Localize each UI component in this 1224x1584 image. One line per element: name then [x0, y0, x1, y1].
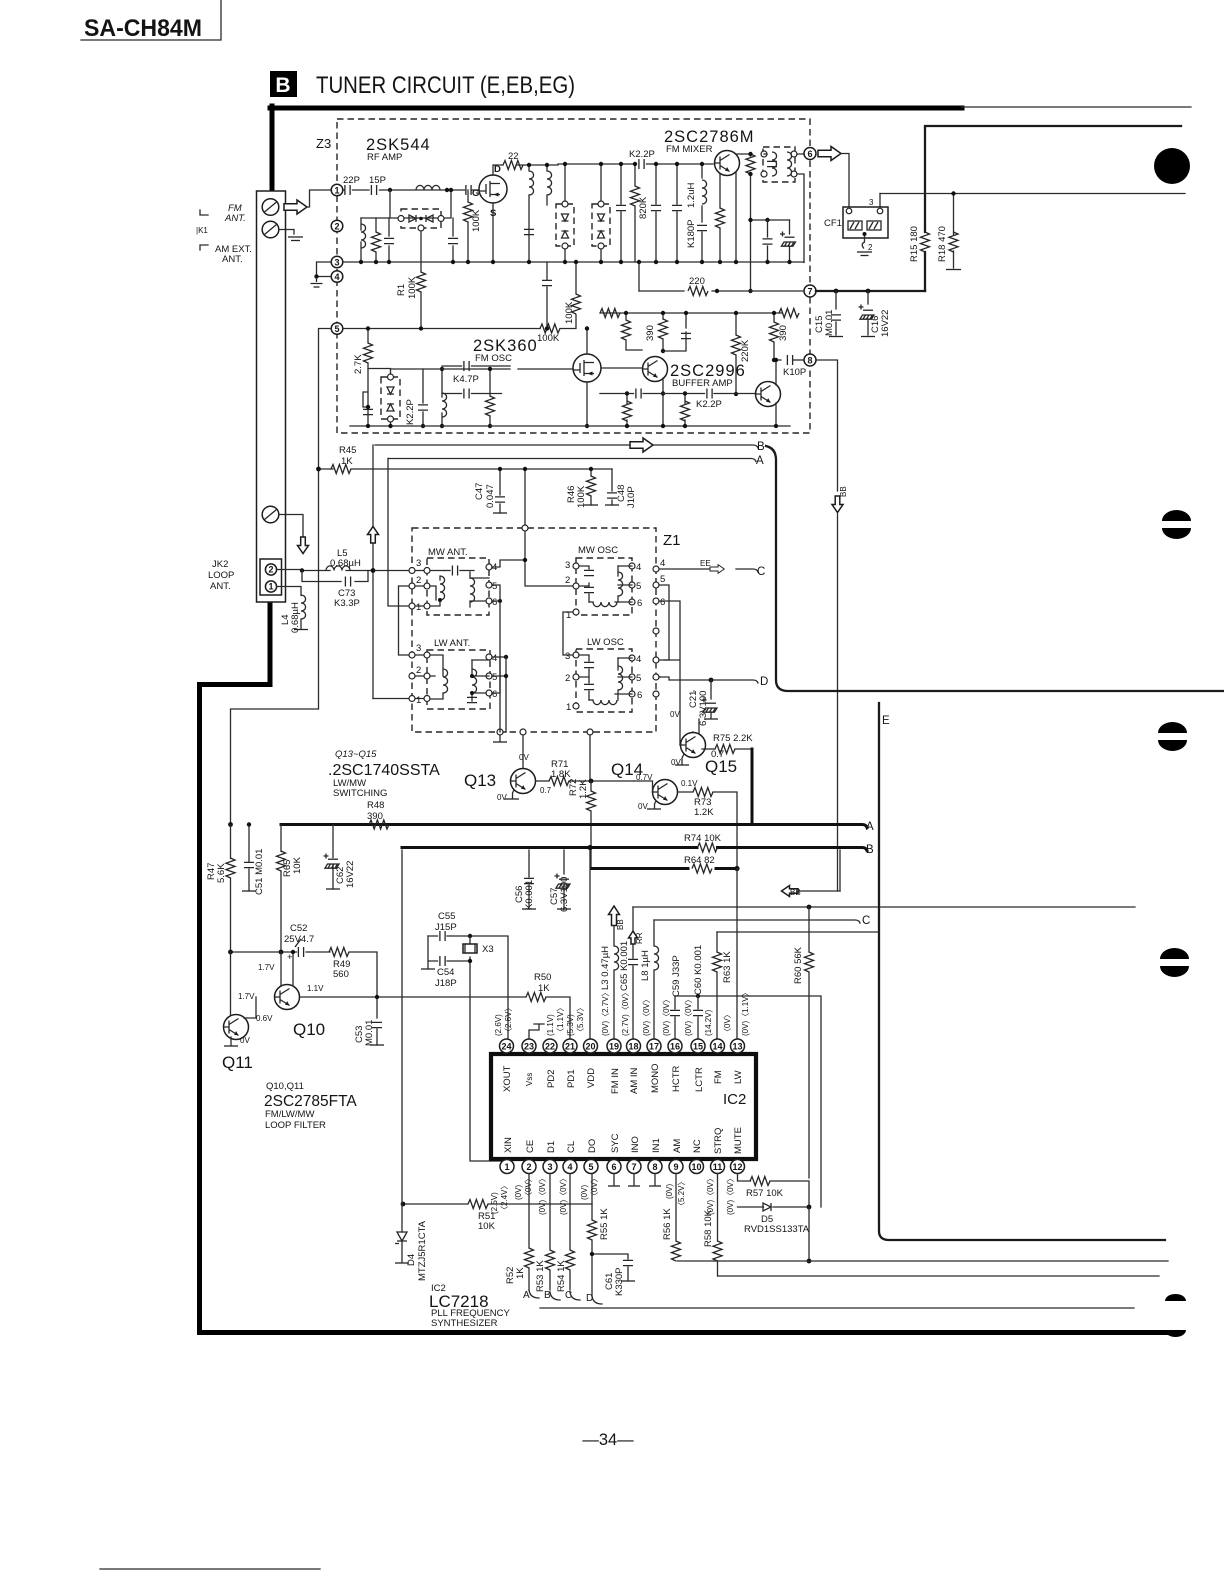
svg-text:220K: 220K [740, 339, 751, 362]
wire AM ext terminal [279, 230, 294, 235]
svg-text:10K: 10K [478, 1221, 496, 1232]
stray bottom-left edge line [100, 1568, 320, 1570]
svg-text:10K: 10K [292, 856, 303, 874]
svg-text:R54 1K: R54 1K [556, 1260, 567, 1292]
svg-text:B: B [866, 844, 874, 856]
svg-text:(14.2V): (14.2V) [704, 1009, 713, 1036]
svg-text:8: 8 [807, 355, 812, 365]
svg-text:B: B [757, 441, 765, 453]
collector load resistor [750, 154, 752, 156]
buffer collector to K10P [776, 360, 781, 385]
svg-text:CF1: CF1 [824, 218, 842, 229]
svg-text:ANT.: ANT. [222, 254, 243, 265]
svg-text:5.6K: 5.6K [216, 863, 227, 883]
svg-text:DO: DO [587, 1139, 598, 1153]
wire pin7 bias row [600, 312, 782, 314]
svg-text:0.7: 0.7 [711, 749, 724, 760]
JK1 brace [200, 210, 208, 250]
capacitor C15 M0.01 [835, 291, 837, 335]
svg-text:15: 15 [693, 1041, 703, 1051]
pin 8 [804, 354, 816, 366]
svg-text:1: 1 [416, 695, 421, 706]
registration black circle [1154, 148, 1190, 184]
capacitor C65 K0.001 [628, 959, 638, 964]
pin 6 [804, 148, 816, 160]
crystal left vert [427, 936, 429, 968]
crystal top wire [428, 936, 508, 1039]
Z1 right edge circles MW [653, 566, 659, 572]
svg-text:BB: BB [839, 486, 848, 497]
MW OSC p3 feed from bus [563, 612, 573, 655]
svg-text:R57 10K: R57 10K [746, 1188, 784, 1199]
svg-text:(0V): (0V) [665, 1184, 674, 1199]
junction [527, 163, 531, 167]
crystal bottom cap C54 [428, 960, 470, 962]
svg-text:15P: 15P [369, 175, 386, 186]
svg-text:〈2.6V〉: 〈2.6V〉 [504, 1004, 513, 1036]
svg-text:6: 6 [492, 689, 497, 700]
svg-text:390: 390 [778, 325, 789, 341]
coil shunt [360, 218, 362, 262]
arrow EE small [710, 565, 724, 574]
pin7 term [633, 1174, 635, 1185]
Q10 collector up [292, 952, 294, 986]
svg-text:Q13: Q13 [464, 771, 496, 790]
capacitor K10P [787, 355, 792, 365]
svg-text:—34—: —34— [582, 1431, 634, 1449]
coil L8 1uH [654, 946, 659, 970]
FM det transformer dashed box [763, 147, 795, 182]
det secondary coil [787, 152, 792, 176]
svg-text:8: 8 [652, 1162, 657, 1172]
svg-text:CE: CE [525, 1140, 536, 1153]
Q13 emitter ground [513, 790, 515, 798]
svg-text:R15 180: R15 180 [909, 226, 920, 262]
transistor 2SC2996 [643, 357, 668, 382]
capacitor C60 K0.001 [693, 1010, 703, 1015]
svg-text:XOUT: XOUT [502, 1065, 513, 1092]
wire R45 supply line [319, 468, 613, 470]
svg-text:R74 10K: R74 10K [684, 833, 722, 844]
capacitor C61 K330P [592, 1254, 628, 1259]
svg-text:0.68µH: 0.68µH [290, 602, 301, 633]
wire R57/D5 column to bottom [808, 1207, 810, 1261]
svg-text:0.1V: 0.1V [681, 779, 698, 788]
svg-text:R1: R1 [396, 284, 407, 296]
svg-text:6: 6 [637, 690, 642, 701]
JK2 pin 2 [265, 564, 276, 575]
svg-text:0.7: 0.7 [540, 786, 552, 795]
svg-text:2: 2 [334, 221, 339, 231]
svg-text:R53 1K: R53 1K [535, 1260, 546, 1292]
mixer emitter down [735, 172, 737, 262]
svg-text:ANT.: ANT. [210, 581, 231, 592]
IF transformer coil b [547, 171, 552, 195]
svg-text:SA-CH84M: SA-CH84M [84, 15, 202, 42]
svg-text:1K: 1K [341, 456, 353, 467]
screw terminal loop [262, 506, 279, 523]
svg-text:18: 18 [628, 1041, 638, 1051]
svg-text:2: 2 [416, 665, 421, 676]
up arrow AM line [368, 527, 379, 544]
svg-text:XIN: XIN [503, 1137, 514, 1153]
diode D4 MTZJ5R1CTA [395, 1232, 407, 1244]
svg-text:2SC2785FTA: 2SC2785FTA [264, 1093, 357, 1110]
svg-text:22: 22 [508, 151, 519, 162]
junction [445, 188, 449, 192]
wire R51 row [403, 1174, 592, 1205]
svg-text:FM/LW/MW: FM/LW/MW [265, 1109, 314, 1120]
capacitor into gate [466, 185, 471, 195]
svg-text:TUNER CIRCUIT (E,EB,EG): TUNER CIRCUIT (E,EB,EG) [316, 72, 575, 99]
junction row A left [228, 822, 233, 827]
Z3 dashed enclosure [337, 119, 810, 433]
mixer collector wire [736, 153, 751, 155]
svg-text:A: A [866, 821, 874, 833]
svg-text:Z3: Z3 [316, 136, 331, 151]
top pin names [502, 1063, 744, 1094]
svg-text:K3.3P: K3.3P [334, 598, 360, 609]
arrow FM out [818, 147, 841, 161]
svg-text:(0V)〈0V〉: (0V)〈0V〉 [642, 995, 651, 1036]
svg-text:R56 1K: R56 1K [662, 1208, 673, 1240]
capacitor C52 25V4.7 [298, 947, 303, 957]
wire osc out C [659, 569, 758, 572]
wire bus pin3 long [343, 261, 804, 263]
wire loop screw to down arrow [279, 515, 303, 539]
svg-text:21: 21 [565, 1041, 575, 1051]
svg-text:4: 4 [334, 272, 339, 282]
svg-text:0V: 0V [519, 753, 529, 762]
Z1 right edge circles LW [653, 628, 659, 634]
wire drain to IF coils [516, 164, 558, 166]
CF1 body [843, 207, 888, 238]
transistor buffer out [756, 382, 781, 407]
svg-text:1K: 1K [515, 1267, 526, 1279]
svg-text:5: 5 [636, 673, 641, 684]
section letter B block [270, 71, 297, 97]
svg-text:3: 3 [416, 643, 421, 654]
svg-text:C65 K0.001: C65 K0.001 [619, 941, 630, 991]
FET drain/source wires [587, 329, 642, 427]
svg-text:STRQ: STRQ [713, 1128, 724, 1154]
svg-text:K4.7P: K4.7P [453, 374, 479, 385]
svg-text:22P: 22P [343, 175, 360, 186]
capacitor C21 6.3V100 [693, 690, 695, 692]
svg-text:3: 3 [547, 1162, 552, 1172]
svg-text:VDD: VDD [586, 1068, 597, 1088]
svg-text:FM MIXER: FM MIXER [666, 144, 713, 155]
coil L5 [326, 566, 350, 571]
svg-text:Q13~Q15: Q13~Q15 [335, 749, 377, 760]
coil L4 [277, 587, 301, 596]
capacitor C53 M0.01 [376, 997, 378, 1045]
svg-text:(0V)〈1.1V〉: (0V)〈1.1V〉 [741, 988, 750, 1036]
svg-text:5: 5 [588, 1162, 593, 1172]
svg-text:LCTR: LCTR [694, 1067, 705, 1092]
varactor dashed box IF b [592, 204, 610, 246]
svg-text:4: 4 [567, 1162, 572, 1172]
arrow B line [630, 438, 653, 452]
svg-text:M0.01: M0.01 [824, 310, 835, 336]
svg-text:JK2: JK2 [212, 559, 228, 570]
svg-text:C59 J33P: C59 J33P [671, 955, 682, 997]
pin5 left drop to AM section [231, 329, 332, 826]
svg-text:390: 390 [645, 325, 656, 341]
wire R60 column [808, 907, 810, 1178]
wire mixer base line [558, 163, 713, 165]
svg-text:560: 560 [333, 969, 349, 980]
svg-text:1.2K: 1.2K [578, 779, 589, 799]
resistor R48 390 in row A [280, 823, 283, 826]
svg-text:390: 390 [367, 811, 383, 822]
svg-text:R58 10K: R58 10K [703, 1209, 714, 1247]
varactor tuning line to R1 [420, 231, 422, 272]
capacitor K180P [697, 225, 707, 230]
svg-text:5: 5 [492, 581, 497, 592]
capacitor C57 6.3V100 [563, 850, 565, 909]
resistor R75 [702, 748, 715, 750]
pin 2 [331, 220, 343, 232]
binder mark pair 2 [1158, 722, 1187, 733]
resistor R51 10K [468, 1200, 488, 1209]
svg-text:〈0V〉: 〈0V〉 [723, 1010, 732, 1036]
capacitor C62 16V22 [332, 825, 334, 858]
svg-text:4: 4 [636, 654, 641, 665]
svg-text:(0V)〈0V〉: (0V)〈0V〉 [684, 995, 693, 1036]
svg-text:0V: 0V [240, 1036, 250, 1045]
svg-text:10: 10 [691, 1162, 701, 1172]
thin top border continuation [962, 106, 1191, 108]
svg-text:0.047: 0.047 [485, 484, 496, 508]
svg-text:7: 7 [807, 286, 812, 296]
svg-text:4: 4 [636, 562, 641, 573]
svg-text:K2.2P: K2.2P [696, 399, 722, 410]
capacitor C48 J10P [611, 469, 613, 505]
resistor 22 drain [493, 165, 503, 175]
wire Q15 collector drop [692, 732, 694, 733]
svg-text:MTZJ5R1CTA: MTZJ5R1CTA [417, 1220, 428, 1281]
svg-text:K330P: K330P [614, 1267, 625, 1296]
svg-text:PD1: PD1 [566, 1070, 577, 1088]
svg-text:RVD1SS133TA: RVD1SS133TA [744, 1224, 810, 1235]
svg-text:NC: NC [692, 1139, 703, 1153]
svg-text:2.7K: 2.7K [353, 354, 364, 374]
svg-text:1K: 1K [538, 983, 550, 994]
svg-text:C60 K0.001: C60 K0.001 [693, 945, 704, 995]
svg-text:100K: 100K [471, 209, 482, 232]
Q10 base from R65 [280, 952, 282, 985]
svg-text:LW: LW [733, 1070, 744, 1084]
pin 1 [331, 184, 343, 196]
pin 4 [331, 271, 343, 283]
svg-text:K2.2P: K2.2P [629, 149, 655, 160]
svg-text:〈1.1V〉: 〈1.1V〉 [556, 1004, 565, 1036]
svg-text:6: 6 [660, 597, 665, 608]
svg-text:(0V)〈0V〉: (0V)〈0V〉 [726, 1174, 735, 1215]
svg-text:R55 1K: R55 1K [599, 1208, 610, 1240]
svg-text:RF AMP: RF AMP [367, 152, 402, 163]
bottom voltage labels [490, 1174, 735, 1215]
resistor 390 a [626, 313, 642, 350]
svg-text:EE: EE [700, 559, 711, 568]
svg-text:D: D [760, 676, 768, 688]
resistor R18 470 [953, 194, 955, 269]
varactor dashed box IF a [556, 204, 574, 246]
MW ANT p4 to MW OSC via top [492, 560, 525, 567]
svg-text:2: 2 [268, 565, 273, 575]
wire Q15 out to bus A [751, 749, 754, 822]
resistor 100K pin5 line [540, 324, 560, 333]
wire B column to D4 [401, 850, 403, 1204]
osc cap left [363, 409, 373, 414]
transistor Q14 [653, 780, 678, 805]
wire FET source down [492, 203, 494, 262]
svg-text:13: 13 [732, 1041, 742, 1051]
svg-text:SWITCHING: SWITCHING [333, 788, 387, 799]
transistor Q15 [681, 733, 706, 758]
wire top thin line from riser [925, 126, 1181, 291]
resistor R49 560 [329, 948, 349, 957]
svg-text:K2.2P: K2.2P [405, 399, 416, 425]
cap bias [663, 332, 686, 351]
svg-text:L3 0.47µH: L3 0.47µH [600, 946, 611, 990]
svg-text:C52: C52 [290, 923, 307, 934]
svg-text:C47: C47 [474, 483, 485, 500]
svg-text:0V: 0V [638, 802, 648, 811]
svg-text:(5.3V): (5.3V) [566, 1014, 575, 1036]
second IF cap [542, 280, 552, 285]
resistor 2.7K [367, 329, 369, 408]
wire C52 R49 line [231, 952, 378, 997]
wire LW ANT p4/p5 join down [492, 656, 506, 658]
capacitor K4.7P b [464, 389, 469, 399]
svg-text:7: 7 [631, 1162, 636, 1172]
wire loop pin2 line [277, 570, 411, 571]
svg-text:HCTR: HCTR [671, 1065, 682, 1092]
resistor R73 1.2K [678, 791, 693, 793]
capacitor C51 M0.01 [248, 825, 250, 892]
svg-text:(0V)〈0V〉: (0V)〈0V〉 [559, 1174, 568, 1215]
svg-text:MONO: MONO [650, 1063, 661, 1093]
title box lines [81, 0, 221, 40]
svg-text:23: 23 [524, 1041, 534, 1051]
svg-text:LOOP: LOOP [208, 570, 234, 581]
pin 5 [331, 323, 343, 335]
svg-text:6: 6 [492, 597, 497, 608]
capacitor K2.2P buffer [707, 389, 712, 399]
wire pin8 drop [816, 360, 838, 491]
svg-text:12: 12 [732, 1162, 742, 1172]
svg-text:BB: BB [616, 919, 625, 930]
svg-text:AM IN: AM IN [629, 1067, 640, 1094]
wire pin15 column [697, 996, 699, 1039]
wire pin14 column + R63 [716, 932, 718, 1039]
antenna terminal strip JK1/JK2 [257, 191, 286, 602]
wire pin18 AM line [633, 906, 1135, 908]
wire bus D bottom run [540, 1307, 1134, 1309]
Q14 emitter ground [655, 801, 657, 808]
svg-text:1.8K: 1.8K [551, 769, 571, 780]
svg-text:1.2K: 1.2K [694, 807, 714, 818]
wire FM det line [880, 193, 1185, 195]
svg-text:Q10,Q11: Q10,Q11 [266, 1081, 304, 1092]
top voltage labels [494, 988, 750, 1036]
bus row B [402, 848, 867, 851]
wire osc gate row [391, 368, 574, 370]
svg-text:(0V)〈0V〉: (0V)〈0V〉 [538, 1174, 547, 1215]
resistor 100K riser [572, 294, 581, 314]
resistor R47 5.6K [230, 825, 232, 859]
resistor R45 1K [331, 465, 351, 474]
svg-text:A: A [756, 455, 764, 467]
wire pin16 column [674, 996, 676, 1039]
svg-text:4: 4 [660, 558, 665, 569]
svg-text:C54: C54 [437, 967, 454, 978]
capacitor IF a [524, 229, 534, 234]
resistor R72 1.2K [587, 791, 596, 811]
svg-text:(2.7V)〈0V〉: (2.7V)〈0V〉 [621, 988, 630, 1036]
svg-text:R48: R48 [367, 800, 384, 811]
wire HCTR/LCTR line [675, 996, 821, 1207]
svg-text:〈2.4V〉: 〈2.4V〉 [500, 1182, 509, 1214]
resistor R46 100K [590, 469, 592, 505]
svg-text:(0V): (0V) [580, 1185, 589, 1200]
svg-text:X3: X3 [482, 944, 494, 955]
resistor R64 82 [692, 864, 712, 873]
wire 220 line pin7 [639, 290, 804, 292]
arrow BB up (pin19) [609, 906, 620, 926]
resistor bias row left [600, 309, 620, 318]
arrow BB down [832, 496, 843, 513]
svg-text:R64 82: R64 82 [684, 855, 715, 866]
IC2 body [491, 1054, 756, 1159]
svg-text:2: 2 [416, 575, 421, 586]
Z1 bottom edge circles [497, 729, 503, 735]
svg-text:(2.6V): (2.6V) [494, 1014, 503, 1036]
svg-text:0.6V: 0.6V [256, 1014, 273, 1023]
svg-text:1: 1 [334, 185, 339, 195]
svg-text:17: 17 [649, 1041, 659, 1051]
wire osc varactor [363, 369, 391, 427]
svg-text:D4: D4 [406, 1254, 417, 1266]
svg-text:K180P: K180P [686, 219, 697, 248]
pin8 term [654, 1174, 656, 1185]
svg-text:〈5.2V〉: 〈5.2V〉 [677, 1178, 686, 1210]
svg-text:4: 4 [492, 653, 497, 664]
wire 220 left vert [638, 262, 640, 291]
binder mark bottom lens 2 [1165, 1330, 1186, 1337]
svg-text:AM: AM [672, 1139, 683, 1153]
diode D5 RVD1SS133TA [738, 1206, 810, 1208]
svg-text:220: 220 [689, 276, 705, 287]
wire B line [375, 445, 758, 448]
svg-text:3: 3 [565, 560, 570, 571]
svg-text:M0.01: M0.01 [364, 1020, 375, 1046]
shunt cap 1 [620, 164, 622, 262]
MW OSC right winding [618, 572, 623, 596]
top pins [500, 1039, 745, 1053]
svg-text:2: 2 [565, 575, 570, 586]
svg-text:INO: INO [630, 1136, 641, 1153]
svg-text:C51 M0.01: C51 M0.01 [254, 849, 265, 895]
det out RC: wire [751, 219, 790, 221]
binder mark pair 1 [1162, 510, 1191, 521]
CF1 ground lead [862, 236, 864, 248]
svg-text:3: 3 [869, 198, 874, 207]
binder mark bottom lens 1 [1165, 1294, 1186, 1301]
resistor 390 c [773, 313, 775, 360]
